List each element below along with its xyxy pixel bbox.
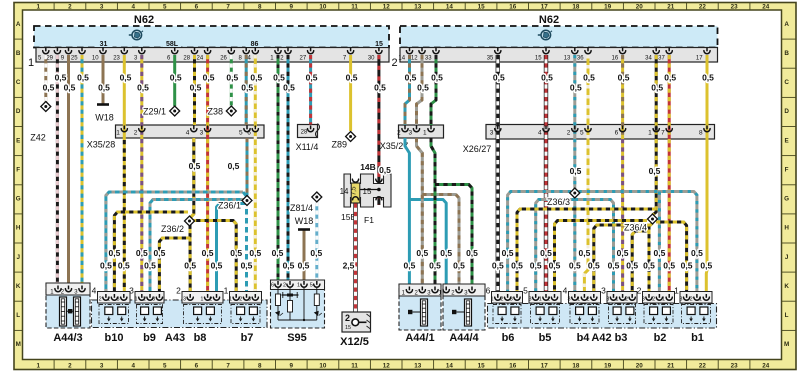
wire size labels bottom xyxy=(100,248,712,271)
svg-text:6: 6 xyxy=(615,130,619,137)
terminal label 58L xyxy=(163,39,181,47)
svg-text:9: 9 xyxy=(290,4,294,11)
svg-text:7: 7 xyxy=(226,4,230,11)
svg-text:2: 2 xyxy=(99,297,102,303)
svg-text:X11/4: X11/4 xyxy=(296,142,319,152)
svg-text:2,5: 2,5 xyxy=(343,261,355,271)
wire red/yellow N62/1 pin24 to b8 pin2 xyxy=(206,55,209,298)
N62 row 2 pins xyxy=(409,48,411,52)
svg-text:16: 16 xyxy=(509,362,517,369)
svg-text:23: 23 xyxy=(113,56,120,62)
svg-text:0,5: 0,5 xyxy=(700,261,712,271)
svg-text:33: 33 xyxy=(425,56,432,62)
fuse F1 internal link xyxy=(356,189,379,191)
svg-text:0,5: 0,5 xyxy=(549,261,561,271)
wire gray/blue Z36/3 branch to b1 pin2 xyxy=(579,192,697,298)
svg-text:0,5: 0,5 xyxy=(374,83,386,93)
wire black/yellow N62/2 pin34 to Z36/4 to b2 pin1 xyxy=(653,55,657,215)
splice Z89 xyxy=(346,132,356,142)
svg-text:21: 21 xyxy=(667,362,675,369)
svg-text:0,5: 0,5 xyxy=(618,73,630,83)
wire size labels middle xyxy=(189,161,661,176)
b5 nozzle symbols xyxy=(536,307,544,315)
terminal label 31 xyxy=(95,39,113,47)
svg-text:D: D xyxy=(784,108,789,115)
fuse box F1 xyxy=(344,174,391,207)
A44/4 heater element xyxy=(465,299,472,326)
splice Z36/2 xyxy=(185,216,195,226)
wire brown/white to Z42 xyxy=(44,55,47,102)
svg-text:X26/27: X26/27 xyxy=(463,144,492,154)
component b6 strip xyxy=(492,292,523,304)
svg-text:1: 1 xyxy=(423,130,427,137)
svg-text:A43: A43 xyxy=(165,332,185,344)
wire yellow/violet N62/1 pin3 to b9 pin1 xyxy=(140,55,143,298)
svg-text:A44/1: A44/1 xyxy=(405,332,434,344)
wire black/yellow Z36/4 branch to b1 pin1 xyxy=(656,222,687,298)
svg-text:1: 1 xyxy=(116,130,120,137)
component b7 strip xyxy=(230,292,262,304)
svg-text:6: 6 xyxy=(195,4,199,11)
b4 inner box xyxy=(570,305,599,324)
svg-text:16: 16 xyxy=(612,56,619,62)
wire black/yellow Z36/4 branch to b6 pin3 xyxy=(517,209,656,298)
svg-text:28: 28 xyxy=(183,56,190,62)
svg-text:A42: A42 xyxy=(591,332,611,344)
wire black/yellow N62/1 pin28 to Z36/2 xyxy=(193,55,196,125)
svg-text:24: 24 xyxy=(762,4,770,11)
svg-text:34: 34 xyxy=(645,56,652,62)
wire green/black N62/2 pin33 to X35/27 pin1 xyxy=(431,55,436,125)
svg-text:0,5: 0,5 xyxy=(306,73,318,83)
svg-text:26: 26 xyxy=(220,56,227,62)
svg-text:20: 20 xyxy=(636,362,644,369)
svg-text:24: 24 xyxy=(197,56,204,62)
svg-text:0,5: 0,5 xyxy=(405,73,417,83)
wire red/yellow N62/2 pin37 to b2 pin3 xyxy=(668,55,671,298)
ground W18 right xyxy=(298,228,310,231)
svg-text:Z36/3: Z36/3 xyxy=(547,197,570,207)
component A42 outer box xyxy=(488,304,717,329)
svg-text:2: 2 xyxy=(690,297,693,303)
svg-text:2: 2 xyxy=(239,297,242,303)
svg-text:Z29/1: Z29/1 xyxy=(143,107,166,117)
component A44/4 box xyxy=(443,284,485,330)
splice Z36/3 xyxy=(570,188,580,198)
svg-text:0,5: 0,5 xyxy=(55,73,67,83)
b10 pins xyxy=(105,294,107,298)
svg-text:W18: W18 xyxy=(295,216,314,226)
S95 pins xyxy=(277,281,279,285)
component b2 strip xyxy=(643,292,675,304)
wire blue Z36/1 branch to b10 pin1 xyxy=(106,192,243,298)
svg-text:A44/3: A44/3 xyxy=(53,332,82,344)
svg-text:0,5: 0,5 xyxy=(98,83,110,93)
svg-text:b4: b4 xyxy=(577,332,591,344)
svg-text:7: 7 xyxy=(661,130,665,137)
component b10 strip xyxy=(98,292,131,304)
svg-text:0,5: 0,5 xyxy=(702,73,714,83)
svg-text:0,5: 0,5 xyxy=(190,83,202,93)
wire green/black branch to A44/4 pin3 xyxy=(435,185,472,291)
svg-text:0,5: 0,5 xyxy=(202,248,214,258)
svg-text:0,5: 0,5 xyxy=(77,73,89,83)
svg-text:2: 2 xyxy=(587,297,590,303)
svg-text:b8: b8 xyxy=(194,332,207,344)
svg-text:S95: S95 xyxy=(287,332,307,344)
terminal label 86 xyxy=(246,39,264,47)
svg-text:K: K xyxy=(16,283,21,290)
svg-text:0,5: 0,5 xyxy=(43,83,55,93)
svg-text:30: 30 xyxy=(368,56,375,62)
svg-text:22: 22 xyxy=(699,4,707,11)
svg-text:0,5: 0,5 xyxy=(144,261,156,271)
svg-text:12: 12 xyxy=(411,56,418,62)
junction block X12/5 xyxy=(342,312,371,332)
wire blue/white Z36/1 to b7 pin2 xyxy=(245,206,248,298)
svg-text:0,5: 0,5 xyxy=(118,261,130,271)
wire brown N62/1 pin10 to ground W18 xyxy=(102,55,105,104)
svg-text:H: H xyxy=(16,225,21,232)
svg-text:0,5: 0,5 xyxy=(569,261,581,271)
connector X26/27 bar xyxy=(486,125,715,140)
svg-text:25: 25 xyxy=(71,56,78,62)
svg-text:5: 5 xyxy=(163,4,167,11)
svg-text:F1: F1 xyxy=(364,215,374,225)
svg-text:14: 14 xyxy=(398,56,405,62)
svg-text:L: L xyxy=(16,312,20,319)
terminal label 15 xyxy=(370,39,388,47)
svg-text:3: 3 xyxy=(528,297,531,303)
svg-text:0,5: 0,5 xyxy=(64,83,76,93)
svg-text:86: 86 xyxy=(251,41,259,48)
svg-text:0,5: 0,5 xyxy=(608,261,620,271)
connector X11/4 box xyxy=(298,125,318,138)
b6 nozzle symbols xyxy=(498,307,506,315)
svg-text:27: 27 xyxy=(300,56,307,62)
svg-text:13: 13 xyxy=(414,362,422,369)
S95 internal circuit xyxy=(275,288,322,321)
wire black/yellow Z36/2 branch to b10 pin2 xyxy=(114,212,188,298)
control unit N62 right box xyxy=(400,26,718,48)
wire yellow N62/1 pin23 to b10 pin3 xyxy=(123,55,126,298)
svg-text:0,5: 0,5 xyxy=(228,161,240,171)
svg-text:0,5: 0,5 xyxy=(283,83,295,93)
svg-text:18: 18 xyxy=(572,4,580,11)
svg-text:b6: b6 xyxy=(502,332,515,344)
svg-text:2: 2 xyxy=(134,130,138,137)
svg-text:36: 36 xyxy=(577,56,584,62)
svg-text:23: 23 xyxy=(731,362,739,369)
b9 inner box xyxy=(137,305,163,324)
svg-text:1: 1 xyxy=(200,297,203,303)
svg-text:0,5: 0,5 xyxy=(241,83,253,93)
svg-text:M: M xyxy=(784,341,789,348)
svg-text:0,5: 0,5 xyxy=(681,261,693,271)
svg-text:15: 15 xyxy=(363,187,372,196)
svg-text:0,5: 0,5 xyxy=(108,248,120,258)
svg-text:1: 1 xyxy=(491,297,494,303)
svg-text:0,5: 0,5 xyxy=(283,261,295,271)
svg-text:1: 1 xyxy=(539,297,542,303)
component b4 strip xyxy=(569,292,601,304)
svg-text:14: 14 xyxy=(340,187,349,196)
svg-text:3: 3 xyxy=(408,130,412,137)
svg-text:10: 10 xyxy=(319,4,327,11)
svg-text:0,5: 0,5 xyxy=(226,73,238,83)
svg-text:2: 2 xyxy=(283,283,286,289)
svg-text:3: 3 xyxy=(679,297,682,303)
svg-text:5: 5 xyxy=(310,283,313,289)
wire blue/brown N62/2 pin14 to X35/27 pin2 xyxy=(405,55,410,125)
b1 inner box xyxy=(682,305,711,324)
svg-text:F: F xyxy=(785,166,789,173)
svg-text:0,5: 0,5 xyxy=(273,73,285,83)
svg-text:19: 19 xyxy=(604,362,612,369)
svg-text:8: 8 xyxy=(699,130,703,137)
gear icon left xyxy=(129,30,143,40)
svg-text:2: 2 xyxy=(625,297,628,303)
svg-text:15: 15 xyxy=(375,41,383,48)
svg-text:2: 2 xyxy=(176,286,181,296)
fuse terminal cups xyxy=(352,179,358,182)
svg-text:35: 35 xyxy=(487,56,494,62)
svg-text:3: 3 xyxy=(510,297,513,303)
wire gray/blue Z36/3 branch to b6 pin2 xyxy=(508,192,571,298)
svg-text:0,5: 0,5 xyxy=(588,261,600,271)
component A43 outer box xyxy=(92,300,268,328)
svg-text:Z89: Z89 xyxy=(331,140,347,150)
svg-text:0,5: 0,5 xyxy=(664,73,676,83)
svg-text:b1: b1 xyxy=(691,332,704,344)
svg-text:2: 2 xyxy=(547,297,550,303)
wire blue Z36/1 branch to b9 pin2 xyxy=(150,200,244,298)
svg-text:1: 1 xyxy=(135,297,138,303)
wire green/black X35/27 pin1 to A44/1 pin3 xyxy=(431,138,435,290)
wire red/white N62/2 pin15 to b5 pin2 xyxy=(544,55,548,298)
b1 nozzle symbols xyxy=(687,307,695,315)
svg-text:9: 9 xyxy=(290,362,294,369)
component b9 strip xyxy=(135,292,164,304)
svg-text:1: 1 xyxy=(577,297,580,303)
connector row 1 bar xyxy=(36,48,389,63)
svg-text:0,5: 0,5 xyxy=(663,261,675,271)
svg-text:X35/28: X35/28 xyxy=(87,140,116,150)
svg-text:b9: b9 xyxy=(143,332,156,344)
wire yellow N62/2 pin36 to b4 pin2 xyxy=(584,55,588,298)
svg-text:4: 4 xyxy=(563,286,568,296)
wire black/pink N62/1 pin29 to A44/3 pin1 xyxy=(56,55,59,289)
svg-text:0,5: 0,5 xyxy=(540,248,552,258)
connector X35/27 bar xyxy=(399,125,444,138)
svg-text:3: 3 xyxy=(248,297,251,303)
svg-text:17: 17 xyxy=(541,362,549,369)
svg-text:0,5: 0,5 xyxy=(230,248,242,258)
svg-text:3: 3 xyxy=(183,297,186,303)
component S95 box xyxy=(271,280,325,328)
svg-text:b2: b2 xyxy=(654,332,667,344)
wire green/black N62/1 pin1 to S95 pin6 xyxy=(277,55,280,285)
svg-text:18: 18 xyxy=(572,362,580,369)
svg-text:2: 2 xyxy=(567,130,571,137)
A44/4 pins xyxy=(445,287,447,291)
wire gray/blue Z36/3 branch to b2 pin2 xyxy=(658,192,661,298)
svg-text:3: 3 xyxy=(117,297,120,303)
b2 nozzle symbols xyxy=(650,307,658,315)
svg-text:D: D xyxy=(16,108,21,115)
wire gray/blue Z36/3 branch to b3 pin1 xyxy=(575,200,614,298)
svg-text:0,5: 0,5 xyxy=(298,261,310,271)
svg-text:1: 1 xyxy=(107,297,110,303)
A44/3 heater elements xyxy=(60,297,67,326)
svg-text:X12/5: X12/5 xyxy=(340,336,369,348)
svg-text:0,5: 0,5 xyxy=(530,261,542,271)
svg-text:58L: 58L xyxy=(166,41,179,48)
svg-text:5: 5 xyxy=(580,130,584,137)
svg-text:11: 11 xyxy=(351,4,358,11)
svg-text:13: 13 xyxy=(414,4,422,11)
X35/27 pins xyxy=(404,126,406,130)
A44/1 pins xyxy=(408,287,410,291)
ground W18 left xyxy=(97,103,109,106)
wire blue X35/27 pin2 to A44/1 pin1 xyxy=(405,138,409,290)
wire black/yellow Z36/4 branch to b4 pin3 xyxy=(594,225,650,298)
svg-text:0,5: 0,5 xyxy=(502,248,514,258)
connector row 2 bar xyxy=(400,48,718,63)
gear icon right xyxy=(538,30,552,40)
svg-text:11: 11 xyxy=(351,362,358,369)
svg-text:3: 3 xyxy=(601,286,606,296)
wire black/yellow Z36/4 branch to b5 pin3 xyxy=(555,221,648,298)
b2 pins xyxy=(648,294,650,298)
svg-text:29: 29 xyxy=(46,56,53,62)
svg-text:2: 2 xyxy=(500,297,503,303)
svg-text:L: L xyxy=(785,312,789,319)
svg-text:7,5: 7,5 xyxy=(351,186,358,195)
svg-text:6: 6 xyxy=(486,286,491,296)
svg-text:b10: b10 xyxy=(105,332,124,344)
svg-text:0,5: 0,5 xyxy=(250,73,262,83)
svg-text:5: 5 xyxy=(163,362,167,369)
splice Z42 xyxy=(41,102,51,112)
svg-text:10: 10 xyxy=(319,362,327,369)
b5 pins xyxy=(535,294,537,298)
N62 row 1 pins xyxy=(45,48,47,52)
svg-text:14: 14 xyxy=(446,362,454,369)
wire blue/black N62/1 pin2 to S95 pin2 xyxy=(287,55,290,285)
svg-text:1: 1 xyxy=(615,297,618,303)
wire blue/yellow N62/1 pin25 to A44/3 pin3 xyxy=(81,55,84,289)
svg-text:0,5: 0,5 xyxy=(416,248,428,258)
wire size labels top xyxy=(43,73,715,93)
svg-text:15: 15 xyxy=(478,4,486,11)
wire black/yellow Z36/4 branch to b3 pin3 xyxy=(632,231,650,298)
wire gray/blue N62/2 pin13 through Z36/3 to b4 pin1 xyxy=(573,55,576,298)
svg-text:31: 31 xyxy=(100,41,108,48)
svg-text:3: 3 xyxy=(642,297,645,303)
svg-text:F: F xyxy=(16,166,20,173)
wire black stripe lower part b10 pin3 xyxy=(123,140,126,298)
svg-text:0,5: 0,5 xyxy=(649,166,661,176)
svg-text:0,5: 0,5 xyxy=(578,248,590,258)
b10 nozzle symbols xyxy=(105,307,113,315)
svg-text:2: 2 xyxy=(345,313,350,323)
X12/5 node circle xyxy=(355,321,366,323)
svg-text:10: 10 xyxy=(92,56,99,62)
connector X35/28 bar xyxy=(116,125,265,138)
wire yellow/violet X26/27 pin6 to b3 pin2 xyxy=(621,139,624,298)
svg-text:3: 3 xyxy=(100,4,104,11)
b6 pins xyxy=(497,294,499,298)
svg-text:15: 15 xyxy=(478,362,486,369)
svg-text:A: A xyxy=(784,21,789,28)
svg-text:37: 37 xyxy=(658,56,665,62)
svg-text:0,5: 0,5 xyxy=(541,73,553,83)
svg-text:0,5: 0,5 xyxy=(346,73,358,83)
svg-text:0,5: 0,5 xyxy=(651,83,663,93)
svg-text:0,5: 0,5 xyxy=(466,248,478,258)
X26/27 pins xyxy=(497,126,499,130)
svg-text:2: 2 xyxy=(391,57,397,69)
svg-text:Z36/2: Z36/2 xyxy=(161,224,184,234)
svg-text:K: K xyxy=(784,283,789,290)
svg-text:17: 17 xyxy=(541,4,549,11)
b1 pins xyxy=(686,294,688,298)
svg-text:6: 6 xyxy=(247,130,251,137)
svg-text:b5: b5 xyxy=(539,332,552,344)
svg-text:0,5: 0,5 xyxy=(570,166,582,176)
svg-text:23: 23 xyxy=(731,4,739,11)
b8 inner box xyxy=(184,305,222,324)
fuse element 7,5A xyxy=(351,183,360,203)
svg-text:0,5: 0,5 xyxy=(184,261,196,271)
b5 inner box xyxy=(531,305,560,324)
component b3 strip xyxy=(607,292,637,304)
svg-text:6: 6 xyxy=(195,362,199,369)
wire blue/white Z81/4 to S95 pin5 xyxy=(315,202,318,285)
svg-text:B: B xyxy=(16,50,21,57)
svg-text:20: 20 xyxy=(636,4,644,11)
svg-text:b7: b7 xyxy=(241,332,254,344)
svg-text:2: 2 xyxy=(68,4,72,11)
svg-text:0,5: 0,5 xyxy=(272,248,284,258)
svg-text:3: 3 xyxy=(129,286,134,296)
svg-text:0,5: 0,5 xyxy=(429,261,441,271)
b9 nozzle symbols xyxy=(141,307,149,315)
b3 nozzle symbols xyxy=(613,307,621,315)
svg-text:0,5: 0,5 xyxy=(203,73,215,83)
svg-text:24: 24 xyxy=(762,362,770,369)
svg-text:0,5: 0,5 xyxy=(249,248,261,258)
component b1 strip xyxy=(680,292,712,304)
svg-text:A44/4: A44/4 xyxy=(449,332,479,344)
svg-text:C: C xyxy=(16,79,21,86)
b3 inner box xyxy=(609,305,636,324)
svg-text:8: 8 xyxy=(258,4,262,11)
svg-text:1: 1 xyxy=(37,362,41,369)
b4 nozzle symbols xyxy=(576,307,584,315)
svg-text:0,5: 0,5 xyxy=(583,73,595,83)
svg-text:15: 15 xyxy=(345,325,351,331)
svg-text:1: 1 xyxy=(297,283,300,289)
b7 nozzle symbols xyxy=(237,307,245,315)
wire green N62/1 pin6 to Z29/1 xyxy=(173,55,176,106)
b6 inner box xyxy=(493,305,521,324)
b10 inner box xyxy=(99,305,129,324)
wire red/white fuse F1 to X12/5 xyxy=(353,204,357,320)
b3 pins xyxy=(613,294,615,298)
svg-text:0,5: 0,5 xyxy=(189,161,201,171)
